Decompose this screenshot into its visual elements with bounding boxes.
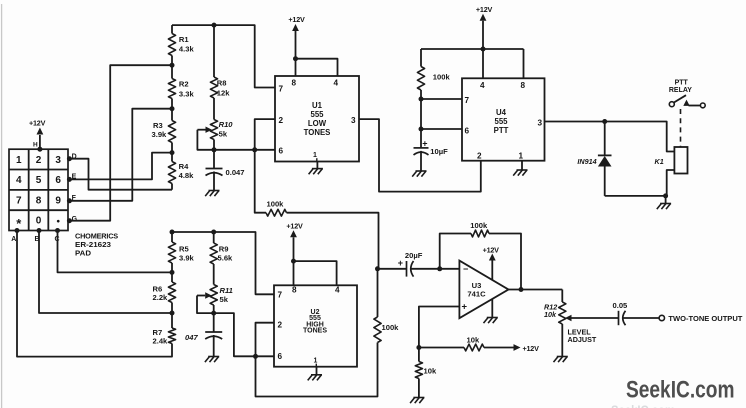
wire R11 bottom lead xyxy=(211,305,216,316)
U4 pin 2 label xyxy=(477,152,482,161)
U4 labels xyxy=(494,108,509,135)
keypad key digits xyxy=(16,155,61,231)
U4 pin 8 label xyxy=(521,81,526,90)
U4 pin 7 label xyxy=(465,96,470,105)
svg-text:555: 555 xyxy=(310,110,324,119)
wire column A to R7 bottom xyxy=(17,231,172,357)
wire U2 pin 2 to pin 6 tie xyxy=(256,323,275,357)
svg-text:PAD: PAD xyxy=(75,248,91,257)
svg-text:10k: 10k xyxy=(544,310,557,319)
label CHOMERICS ER-21623 PAD xyxy=(75,232,118,258)
svg-text:A: A xyxy=(11,236,16,243)
svg-text:6: 6 xyxy=(279,147,284,156)
wire U2 pin2/6 node to 100k bottom rail xyxy=(256,343,378,397)
node summing junction xyxy=(375,266,380,271)
dashed mechanical link contact to coil xyxy=(680,109,682,147)
resistor R6 xyxy=(153,282,176,303)
svg-text:100k: 100k xyxy=(470,221,488,230)
svg-text:G: G xyxy=(72,216,78,223)
U4 pin 4 label xyxy=(480,81,485,90)
svg-text:+: + xyxy=(422,138,427,148)
svg-text:10k: 10k xyxy=(424,367,437,376)
svg-text:741C: 741C xyxy=(467,290,486,299)
svg-text:4.8k: 4.8k xyxy=(179,171,195,180)
svg-text:7: 7 xyxy=(465,96,470,105)
svg-text:R9: R9 xyxy=(219,244,229,253)
resistor R1 xyxy=(168,34,194,56)
wire R11 node to U2 pin 6 xyxy=(214,313,274,359)
U1 pin 6 label xyxy=(279,147,284,156)
power +12V above U1 xyxy=(288,15,337,76)
capacitor 0.05 output coupling xyxy=(613,301,629,325)
svg-text:SeekIC.com: SeekIC.com xyxy=(626,377,735,404)
svg-text:2: 2 xyxy=(36,155,42,166)
wire R5 top lead xyxy=(171,232,173,242)
svg-text:100k: 100k xyxy=(433,72,451,81)
ground below 10uF xyxy=(412,171,426,177)
U2 pin 8 label xyxy=(292,285,297,294)
wire R2-R3 segment xyxy=(170,99,175,121)
svg-text:PTT: PTT xyxy=(494,126,509,135)
svg-text:+12V: +12V xyxy=(483,245,500,254)
svg-text:+: + xyxy=(398,258,403,268)
wire U1 pin6 net (R10 bottom to U1 pin 6) xyxy=(214,147,275,152)
node C xyxy=(55,228,61,243)
node E xyxy=(67,174,77,182)
svg-text:1: 1 xyxy=(16,155,22,166)
svg-text:7: 7 xyxy=(279,84,284,93)
wire R12 wiper to 0.05 cap xyxy=(565,315,619,344)
resistor 100k (U2 to summing node) xyxy=(374,317,399,343)
svg-text:0.047: 0.047 xyxy=(226,168,245,177)
svg-text:TONES: TONES xyxy=(303,328,327,335)
wire top rail (R1 top to R8 top to U1 pin 7) xyxy=(172,23,275,88)
power +12V above U3 xyxy=(483,245,500,280)
power +12V above U2 xyxy=(286,222,336,286)
op-amp U3 741C xyxy=(459,261,508,319)
U2 pin 1 label xyxy=(314,357,318,366)
wire R6-R7 segment xyxy=(170,303,175,329)
power +12V above U4 xyxy=(421,5,524,78)
U1 pin 4 label xyxy=(334,78,339,87)
wire G row to R1/R2 junction xyxy=(69,65,172,221)
resistor R8 xyxy=(210,77,230,98)
ground below .047 xyxy=(205,357,219,363)
wire R9 top lead xyxy=(213,232,215,243)
svg-text:PTT: PTT xyxy=(675,80,689,87)
resistor 10k to +12V xyxy=(419,336,539,353)
node B xyxy=(35,228,42,243)
wire R3-R4 segment xyxy=(170,143,175,162)
relay contact PTT (SPST-NO) xyxy=(669,80,705,108)
op U4 555 box xyxy=(462,78,545,160)
resistor R2 xyxy=(168,79,194,99)
U1 pin 2 label xyxy=(279,116,284,125)
U1 pin 7 label xyxy=(279,84,284,93)
svg-text:ADJUST: ADJUST xyxy=(568,335,597,344)
svg-text:2: 2 xyxy=(279,116,284,125)
svg-text:4: 4 xyxy=(16,175,22,186)
svg-text:0: 0 xyxy=(36,216,42,227)
wire 20uF to U3 inverting input xyxy=(412,266,460,271)
wire R1 top lead xyxy=(171,25,173,33)
U2 pin 6 label xyxy=(278,352,283,361)
U2 pin 2 label xyxy=(278,321,283,330)
svg-text:10k: 10k xyxy=(467,336,480,345)
svg-text:3: 3 xyxy=(537,118,542,127)
svg-text:5: 5 xyxy=(36,175,42,186)
svg-text:6: 6 xyxy=(55,175,61,186)
relay coil K1 xyxy=(655,147,688,196)
svg-text:2: 2 xyxy=(278,321,283,330)
U1 pin 3 label xyxy=(351,116,356,125)
ground below 0.047 xyxy=(205,191,219,197)
svg-text:8: 8 xyxy=(292,78,297,87)
U1 pin 1 label xyxy=(313,152,317,162)
svg-text:6: 6 xyxy=(278,352,283,361)
wire U4 pin 6 tie xyxy=(419,127,463,132)
svg-text:7: 7 xyxy=(278,291,283,300)
svg-text:9: 9 xyxy=(55,195,61,206)
ground below U4 pin 1 xyxy=(513,161,527,176)
U4 pin 1 label xyxy=(519,152,524,161)
node A xyxy=(11,228,19,243)
capacitor 0.047 (low tones timing) xyxy=(206,150,245,191)
ground below U1 pin 1 xyxy=(309,162,323,175)
svg-text:+12V: +12V xyxy=(288,15,305,24)
resistor R7 xyxy=(153,328,176,346)
wire E row to R3/R4 junction xyxy=(69,153,172,180)
node F xyxy=(67,195,77,203)
U4 pin 3 label xyxy=(537,118,542,127)
svg-text:3.9k: 3.9k xyxy=(179,253,195,262)
capacitor 20uF coupling xyxy=(378,251,423,277)
wire column C to R5/R6 junction xyxy=(58,231,173,273)
op U1 555 box xyxy=(275,76,359,162)
wire F row to R2/R3 junction xyxy=(69,109,172,201)
svg-text:R3: R3 xyxy=(153,121,163,130)
wire 100k to summing node (vertical) xyxy=(377,269,379,317)
wire U3 output to R12 xyxy=(561,290,563,303)
svg-text:4.3k: 4.3k xyxy=(179,45,195,54)
U4 pin 6 label xyxy=(465,126,470,135)
svg-text:20µF: 20µF xyxy=(405,251,423,260)
U2 pin 4 label xyxy=(335,285,340,294)
svg-text:100k: 100k xyxy=(382,323,400,332)
wire R8 top lead xyxy=(213,25,215,77)
svg-text:+12V: +12V xyxy=(476,5,493,14)
svg-text:5.6k: 5.6k xyxy=(218,254,234,263)
svg-text:R11: R11 xyxy=(220,286,233,295)
potentiometer R12 10k level adjust xyxy=(544,302,566,324)
svg-text:100k: 100k xyxy=(267,200,285,209)
svg-text:TONES: TONES xyxy=(304,128,331,137)
svg-text:1: 1 xyxy=(519,152,524,161)
svg-text:R6: R6 xyxy=(153,284,163,293)
resistor 10k to ground xyxy=(415,348,437,398)
wire R5-R6 segment xyxy=(170,263,175,282)
svg-text:8: 8 xyxy=(292,285,297,294)
U2 labels xyxy=(303,309,327,335)
wire R12 to ground xyxy=(561,324,563,357)
wire R9-R11 segment xyxy=(213,264,215,285)
wire D row to R4 bottom xyxy=(69,159,172,190)
svg-text:SeekIC.com: SeekIC.com xyxy=(611,404,675,408)
svg-text:1: 1 xyxy=(314,357,318,364)
svg-text:2.2k: 2.2k xyxy=(153,293,169,302)
svg-text:0.05: 0.05 xyxy=(613,301,629,310)
capacitor 10uF (PTT timing) xyxy=(414,129,449,171)
U1 pin 8 label xyxy=(292,78,297,87)
wire 100k to U4 pin 7 xyxy=(419,90,463,129)
node D xyxy=(67,154,77,162)
node H (+12V keypad common) xyxy=(29,119,46,152)
terminal two-tone output xyxy=(659,314,743,323)
ground below relay coil xyxy=(657,196,671,209)
svg-text:5k: 5k xyxy=(219,130,228,139)
svg-text:2.4k: 2.4k xyxy=(153,336,169,345)
svg-text:555: 555 xyxy=(494,117,508,126)
svg-text:8: 8 xyxy=(521,81,526,90)
svg-text:R4: R4 xyxy=(179,162,189,171)
svg-text:047: 047 xyxy=(185,333,198,342)
svg-text:R1: R1 xyxy=(179,35,189,44)
svg-text:4: 4 xyxy=(334,78,339,87)
svg-text:2: 2 xyxy=(477,152,482,161)
potentiometer R10 5k xyxy=(210,120,233,140)
wire R1-R2 segment xyxy=(170,56,175,79)
svg-text:1: 1 xyxy=(313,152,317,159)
watermark SeekIC.com xyxy=(611,377,735,408)
svg-text:−: − xyxy=(463,264,468,274)
svg-text:●: ● xyxy=(56,218,60,225)
resistor 100k feedback xyxy=(470,221,489,237)
wire R8-R10 segment xyxy=(213,98,215,120)
svg-text:U1: U1 xyxy=(312,101,323,110)
resistor 100k (U1 to summing node) xyxy=(266,200,287,217)
svg-text:R8: R8 xyxy=(217,79,227,88)
wire column B to R6/R7 junction xyxy=(39,231,172,314)
potentiometer R11 5k xyxy=(210,285,233,306)
svg-text:+: + xyxy=(462,302,468,313)
node bias junction xyxy=(416,345,421,350)
svg-text:3.9k: 3.9k xyxy=(152,130,168,139)
wire feedback to output xyxy=(489,234,521,290)
svg-text:RELAY: RELAY xyxy=(669,87,692,94)
svg-text:R2: R2 xyxy=(179,79,189,88)
svg-text:5k: 5k xyxy=(220,295,229,304)
svg-text:K1: K1 xyxy=(655,157,664,166)
svg-text:8: 8 xyxy=(36,195,42,206)
wire R10 wiper (rheostat) xyxy=(197,127,214,150)
wire high-tone top rail (R5/R9 tops to U2 pin 7) xyxy=(170,230,275,295)
wire U1 pin 2 to pin 6 tie and 100k xyxy=(255,119,275,213)
svg-text:3: 3 xyxy=(55,155,61,166)
svg-text:+12V: +12V xyxy=(286,222,303,231)
svg-text:TWO-TONE OUTPUT: TWO-TONE OUTPUT xyxy=(668,314,742,323)
resistor R9 xyxy=(210,243,233,264)
resistor R5 xyxy=(168,242,194,263)
svg-text:U4: U4 xyxy=(496,108,507,117)
wire 100k to summing node xyxy=(287,213,379,269)
svg-text:10µF: 10µF xyxy=(430,147,448,156)
svg-text:12k: 12k xyxy=(217,89,230,98)
wire 0.05 to output terminal xyxy=(624,317,659,319)
svg-text:R5: R5 xyxy=(179,245,189,254)
resistor R3 xyxy=(152,121,176,143)
svg-text:R10: R10 xyxy=(219,120,234,129)
U1 labels xyxy=(304,101,331,137)
ground below U2 pin 1 xyxy=(308,367,322,381)
svg-text:3.3k: 3.3k xyxy=(179,90,195,99)
U2 pin 7 label xyxy=(278,291,283,300)
op U2 555 box xyxy=(274,285,357,366)
wire U3 output xyxy=(508,287,562,292)
wire R11 wiper (rheostat) xyxy=(197,292,214,313)
svg-text:3: 3 xyxy=(351,116,356,125)
svg-text:6: 6 xyxy=(465,126,470,135)
svg-text:LOW: LOW xyxy=(308,119,327,128)
wire feedback tap xyxy=(440,234,471,269)
diode 1N914 flyback xyxy=(577,122,611,196)
svg-text:4: 4 xyxy=(480,81,485,90)
wire R4 bottom lead xyxy=(171,184,173,190)
svg-text:IN914: IN914 xyxy=(577,157,596,166)
capacitor .047 (high tones timing) xyxy=(185,313,222,356)
svg-text:4: 4 xyxy=(335,285,340,294)
svg-text:H: H xyxy=(33,142,38,149)
scan edge artifact (left) xyxy=(1,4,3,408)
wire U1 pin 3 to U4 pin 2 xyxy=(359,119,481,192)
svg-text:+12V: +12V xyxy=(29,119,46,128)
svg-text:7: 7 xyxy=(16,195,22,206)
ground below U3 xyxy=(484,299,498,323)
wire R10 bottom lead xyxy=(212,140,217,153)
resistor R4 xyxy=(168,162,194,184)
wire diode to K1 bottom / ground xyxy=(605,193,668,198)
wire U3 non-inverting input to bias node xyxy=(419,307,460,348)
keypad CHOMERICS ER-21623 pad (12-key matrix) xyxy=(9,149,68,230)
resistor 100k (U4 reset RC) xyxy=(417,67,450,91)
ground below R12 xyxy=(554,357,568,363)
svg-text:+12V: +12V xyxy=(523,344,540,353)
wire U4 pin 3 to relay coil xyxy=(545,119,675,152)
node G xyxy=(67,216,78,223)
ground below 10k xyxy=(410,398,424,404)
